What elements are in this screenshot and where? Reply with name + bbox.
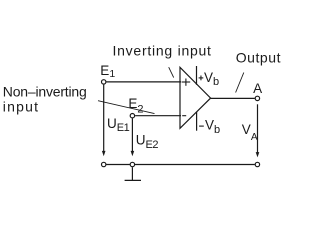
wire voltage arrow line U_E1 <box>103 85 105 152</box>
wire voltage arrow line V_A <box>257 104 259 153</box>
svg-text:VA: VA <box>242 122 258 143</box>
leader line for Non-inverting input label <box>98 101 155 114</box>
svg-text:input: input <box>3 99 39 115</box>
label +Vb <box>199 76 204 81</box>
svg-text:A: A <box>253 81 262 96</box>
wire op-amp output to node A <box>211 97 255 99</box>
arrowhead V_A <box>256 152 260 157</box>
wire voltage arrow line U_E2 <box>131 118 133 151</box>
op-amp U1 triangle <box>180 67 211 128</box>
label -Vb <box>199 125 204 127</box>
node A terminal circle <box>255 96 259 100</box>
svg-text:UE1: UE1 <box>107 116 130 134</box>
node E1 terminal circle <box>102 80 106 84</box>
svg-text:Non–inverting: Non–inverting <box>3 83 87 99</box>
bottom terminal below A <box>255 162 259 166</box>
svg-text:UE2: UE2 <box>136 133 159 152</box>
op-amp negative supply line -Vb <box>196 112 198 131</box>
wire E2 to op-amp - input <box>135 115 181 117</box>
arrowhead U_E1 <box>102 151 106 156</box>
svg-text:Output: Output <box>236 50 281 66</box>
leader line for Inverting input label <box>169 67 174 77</box>
svg-text:Vb: Vb <box>204 70 219 88</box>
svg-text:E2: E2 <box>128 96 143 116</box>
bottom terminal below E1 <box>102 162 106 166</box>
wire E1 to op-amp + input <box>106 81 181 83</box>
wire bottom ground rail <box>106 164 255 166</box>
svg-text:E1: E1 <box>100 63 115 80</box>
svg-text:Inverting input: Inverting input <box>113 42 212 58</box>
op-amp + input polarity mark <box>182 79 191 86</box>
svg-text:Vb: Vb <box>205 118 220 137</box>
op-amp - input polarity mark <box>182 115 186 117</box>
ground symbol <box>125 167 141 180</box>
node E2 terminal circle <box>130 114 134 118</box>
arrowhead U_E2 <box>131 151 135 156</box>
op-amp positive supply line +Vb <box>196 66 198 85</box>
leader line for Output label <box>236 73 244 93</box>
bottom terminal below E2 (ground node) <box>130 162 134 166</box>
